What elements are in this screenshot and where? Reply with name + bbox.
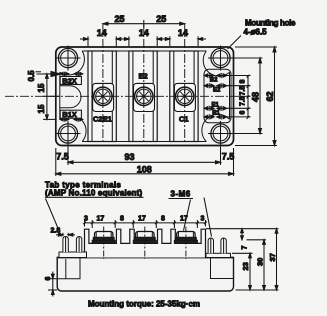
svg-text:3: 3 — [201, 216, 205, 223]
svg-text:B1: B1 — [212, 111, 220, 117]
pin E1 row — [204, 106, 227, 111]
svg-text:37: 37 — [268, 253, 277, 261]
dimension 0.5 — [27, 70, 60, 82]
centerline col2 — [143, 24, 145, 142]
dim 23 — [249, 253, 251, 290]
terminal bump 1 — [92, 232, 115, 244]
svg-text:7.5: 7.5 — [239, 86, 246, 96]
left recess D-shape — [60, 86, 81, 108]
terminal housing profile — [85, 229, 206, 257]
label box B1X — [60, 110, 81, 119]
svg-text:B2X: B2X — [62, 76, 77, 85]
mounting hole top-left — [56, 46, 81, 71]
left pin B2X a — [60, 72, 69, 76]
svg-text:93: 93 — [125, 152, 135, 162]
screw pocket col3 — [174, 83, 195, 111]
module body outline (top view outer) — [56, 47, 234, 146]
svg-text:8: 8 — [239, 80, 246, 84]
right pin pocket outline — [204, 69, 231, 123]
svg-text:3: 3 — [84, 216, 88, 223]
svg-text:6: 6 — [45, 277, 52, 281]
svg-text:2.8: 2.8 — [51, 227, 61, 234]
svg-text:(AMP No.110 equivalent): (AMP No.110 equivalent) — [45, 189, 143, 198]
right pedestal — [206, 253, 231, 257]
centerline col1 — [102, 24, 104, 142]
screw terminal E2 — [135, 87, 153, 105]
svg-text:48: 48 — [250, 92, 260, 102]
left pedestal — [59, 252, 87, 258]
dim 37 — [276, 229, 278, 290]
svg-text:14: 14 — [178, 28, 188, 38]
terminal column 3 — [170, 51, 198, 142]
svg-text:17: 17 — [180, 216, 188, 223]
svg-text:E2: E2 — [139, 72, 148, 81]
svg-text:Mounting torque: 25-35kg·cm: Mounting torque: 25-35kg·cm — [88, 300, 200, 309]
svg-text:6: 6 — [239, 111, 246, 115]
dimension chain 8 7.5 7.5 6 — [226, 75, 251, 119]
right tab pin 1 — [208, 238, 213, 253]
3-M6 note — [169, 190, 194, 231]
bump centerline 1 — [103, 227, 105, 260]
svg-text:B2: B2 — [210, 78, 218, 84]
dimension 15 15 — [37, 74, 60, 120]
dimension 25 25 — [103, 20, 185, 28]
svg-text:15: 15 — [37, 83, 46, 92]
dimension 2.8 — [56, 233, 75, 237]
right tab pin 2 — [221, 238, 226, 253]
left pin B1X b — [74, 117, 83, 121]
bump centerline 3 — [185, 227, 187, 260]
mounting hole bottom-left — [56, 121, 81, 146]
ear fillet bottom-left — [60, 115, 86, 141]
right pins grid — [204, 73, 227, 120]
svg-text:E1: E1 — [212, 103, 220, 109]
svg-text:Mounting hole: Mounting hole — [245, 19, 296, 28]
svg-text:7.5: 7.5 — [239, 96, 246, 106]
pin B2 row — [204, 73, 227, 78]
svg-text:4-ø6.5: 4-ø6.5 — [244, 28, 268, 37]
svg-text:25: 25 — [115, 14, 125, 24]
side dim chain 3 17 8 17 8 17 3 — [83, 220, 207, 228]
svg-text:17: 17 — [138, 216, 146, 223]
dimension 6 — [45, 272, 57, 297]
screw pocket col2 — [134, 83, 155, 111]
svg-text:B1X: B1X — [62, 110, 77, 119]
left pin B1X a — [60, 117, 69, 121]
svg-text:7.5: 7.5 — [56, 151, 69, 161]
pin E2 row — [204, 83, 227, 88]
ext bottom — [236, 289, 279, 291]
svg-text:17: 17 — [97, 216, 105, 223]
svg-text:108: 108 — [137, 164, 152, 174]
terminal column 1 — [88, 51, 116, 142]
side view case body — [57, 258, 233, 292]
terminal bump 2 — [133, 232, 156, 244]
right dims 7 23 30 37 — [206, 229, 279, 290]
svg-text:25: 25 — [156, 14, 166, 24]
left pin B2X b — [74, 72, 83, 76]
dimension 14 col1 — [80, 36, 129, 46]
dimension 14 col3 — [165, 36, 206, 46]
svg-text:30: 30 — [255, 258, 264, 266]
svg-text:62: 62 — [265, 91, 275, 101]
ear fillet bottom-right — [202, 114, 230, 141]
svg-text:8: 8 — [161, 216, 165, 223]
right flange step — [211, 258, 234, 279]
svg-text:7: 7 — [242, 246, 249, 250]
svg-text:E2: E2 — [213, 88, 221, 94]
screw terminal C2E1 — [94, 87, 112, 105]
terminal bump 3 — [174, 232, 197, 244]
screw pocket col1 — [93, 83, 114, 111]
ext from pedestal top — [232, 252, 253, 254]
ear fillet top-right — [203, 51, 229, 76]
mounting hole callout — [228, 19, 297, 50]
left tab pin 1 — [63, 237, 68, 253]
ext from housing top — [206, 228, 279, 230]
pin B1 row — [204, 114, 227, 119]
case top edge line — [57, 257, 233, 259]
dimension 7.5 93 7.5 108 — [56, 147, 234, 177]
svg-text:15: 15 — [37, 104, 46, 113]
svg-text:14: 14 — [97, 28, 107, 38]
mounting hole bottom-right — [208, 121, 233, 146]
terminal column 2 — [129, 51, 157, 142]
dimension 62 — [235, 47, 277, 146]
dimension 14 col2 — [124, 36, 169, 46]
screw terminal C1 — [176, 87, 194, 105]
svg-text:23: 23 — [241, 262, 250, 270]
svg-text:3-M6: 3-M6 — [171, 190, 191, 199]
dim 7 — [241, 229, 243, 240]
dimension 48 — [231, 58, 263, 134]
svg-text:0.5: 0.5 — [27, 70, 36, 82]
tab terminals note — [45, 181, 212, 237]
module body inner edge — [60, 51, 230, 142]
dim 30 — [263, 240, 265, 290]
label box B2X — [60, 76, 81, 85]
svg-text:C1: C1 — [179, 115, 189, 124]
svg-text:8: 8 — [120, 216, 124, 223]
ear fillet top-left — [60, 51, 85, 75]
left flange step — [57, 258, 80, 279]
horizontal centerline — [5, 95, 240, 97]
svg-text:14: 14 — [139, 28, 149, 38]
svg-text:7.5: 7.5 — [222, 151, 235, 161]
centerline col3 — [184, 24, 186, 142]
ext from pin tops — [247, 239, 267, 241]
bump centerline 2 — [144, 227, 146, 260]
left tab pin 2 — [76, 237, 81, 253]
mounting hole top-right — [208, 46, 233, 71]
svg-text:C2E1: C2E1 — [93, 115, 112, 124]
